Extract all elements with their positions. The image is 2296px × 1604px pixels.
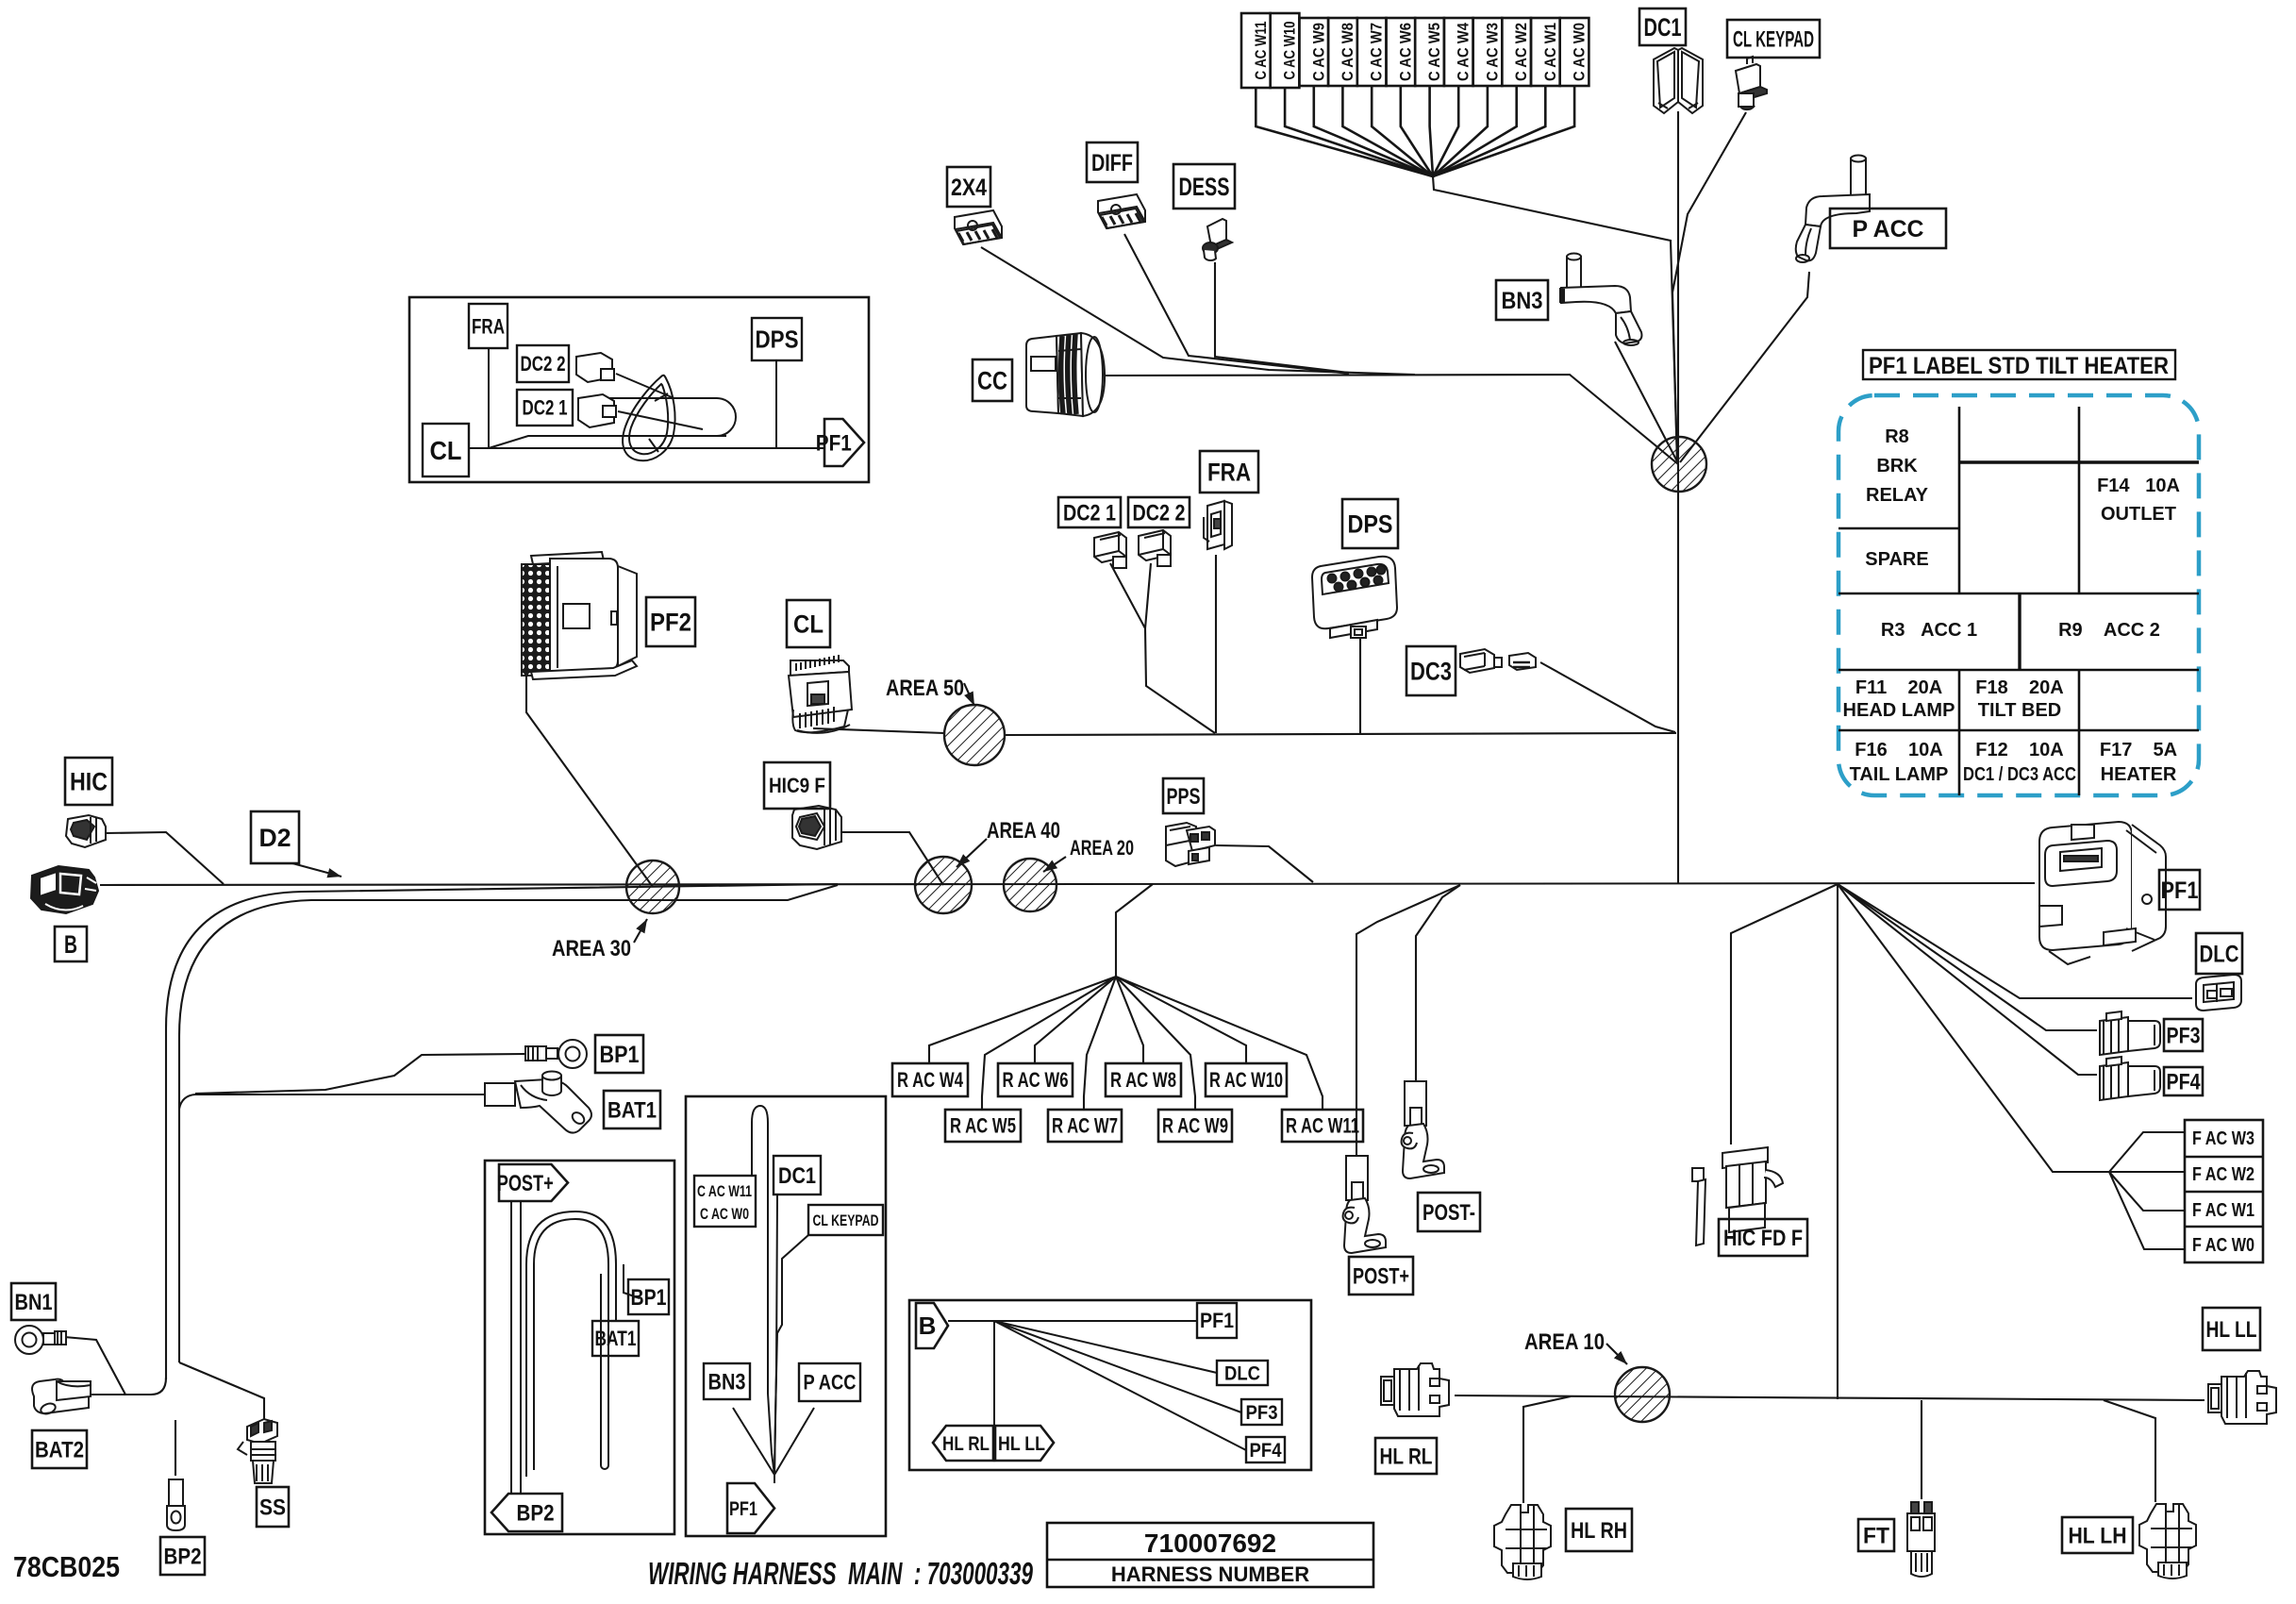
wire PF2 drop: [526, 677, 653, 887]
wire accessory trunk area50: [813, 728, 1676, 735]
connector DC2 2 mid: [1139, 530, 1171, 566]
svg-text:C AC W0: C AC W0: [700, 1205, 749, 1223]
wire CL KEYPAD drop mid: [774, 1235, 808, 1475]
wire C AC W4 fan line: [1433, 86, 1458, 176]
svg-text:F12 10A: F12 10A: [1975, 740, 2063, 760]
wire HIC FD F drop: [1731, 884, 1838, 1145]
label R AC W4: [892, 1063, 968, 1096]
svg-text:B: B: [64, 930, 77, 959]
svg-text:F16 10A: F16 10A: [1855, 740, 1942, 760]
wire battery cable outer: [166, 884, 838, 1379]
wire P ACC drop: [1680, 272, 1809, 462]
label C AC W2 top: [1502, 18, 1531, 86]
connector SS: [238, 1419, 277, 1483]
svg-text:HL LL: HL LL: [2206, 1317, 2257, 1343]
svg-text:BP2: BP2: [164, 1544, 202, 1569]
wire SS link: [179, 1362, 264, 1420]
svg-text:DPS: DPS: [1348, 510, 1393, 538]
label PF4: [2164, 1067, 2203, 1095]
svg-text:C AC W4: C AC W4: [1455, 23, 1472, 81]
svg-text:HARNESS NUMBER: HARNESS NUMBER: [1111, 1562, 1309, 1586]
svg-text:B: B: [919, 1312, 937, 1340]
label BAT1: [604, 1091, 660, 1128]
svg-text:F AC W3: F AC W3: [2192, 1128, 2254, 1149]
label CL KEYPAD inset: [808, 1205, 883, 1235]
svg-text:F AC W1: F AC W1: [2192, 1200, 2254, 1221]
label PF3 b-inset: [1241, 1399, 1282, 1425]
wire DESS drop: [1215, 262, 1349, 373]
connector CL KEYPAD: [1736, 57, 1767, 109]
label HL LL: [2203, 1308, 2260, 1350]
label PF1 flag inset: [816, 419, 864, 466]
connector DPS: [1312, 557, 1397, 638]
label C AC W5 top: [1415, 18, 1444, 86]
svg-text:OUTLET: OUTLET: [2101, 504, 2176, 525]
svg-text:FRA: FRA: [472, 315, 505, 339]
wire lower trunk: [1455, 1395, 2204, 1400]
wire R AC fan stem: [1116, 884, 1153, 977]
label C AC W3 top: [1473, 18, 1503, 86]
wire C AC W0 fan line: [1433, 86, 1574, 176]
wire PPS link: [1216, 845, 1313, 882]
relay DIFF: [1098, 194, 1145, 228]
svg-text:2X4: 2X4: [951, 175, 987, 201]
svg-text:DC2 1: DC2 1: [1063, 500, 1116, 526]
label DC2 2 mid: [1128, 497, 1190, 527]
label POST plus: [1349, 1257, 1413, 1295]
connector DC3: [1460, 649, 1536, 673]
label HL LH: [2062, 1517, 2133, 1553]
wire C AC W3 fan line: [1433, 86, 1488, 176]
wire HIC link: [106, 832, 224, 884]
fuse panel grid: [1838, 407, 2199, 795]
svg-text:PF3: PF3: [2167, 1023, 2201, 1048]
svg-text:HL RH: HL RH: [1571, 1518, 1627, 1544]
connector HL RL: [1381, 1363, 1449, 1416]
wire BP1 link: [195, 1054, 525, 1094]
svg-text:FRA: FRA: [1207, 458, 1251, 486]
label DC2 1 inset: [517, 390, 573, 426]
connector FRA mid: [1204, 501, 1232, 549]
svg-text:D2: D2: [259, 824, 291, 852]
wire C AC W11 fan line: [1256, 88, 1433, 176]
svg-text:C AC W0: C AC W0: [1571, 23, 1589, 81]
wire F AC link: [1838, 884, 2109, 1172]
connector PF3: [2100, 1011, 2160, 1055]
svg-text:HEAD LAMP: HEAD LAMP: [1843, 700, 1955, 721]
label FRA mid: [1200, 451, 1258, 493]
svg-text:PF1 LABEL STD TILT HEATER: PF1 LABEL STD TILT HEATER: [1869, 353, 2169, 379]
wire HIC9F link: [841, 832, 943, 885]
terminal BN1 ring: [15, 1326, 66, 1354]
svg-text:CC: CC: [977, 366, 1007, 394]
node AREA 30: [626, 860, 679, 913]
connector HL LH: [2139, 1504, 2196, 1579]
connector CL: [789, 655, 852, 733]
node AREA 10: [1615, 1367, 1670, 1422]
svg-text:RELAY: RELAY: [1866, 485, 1929, 506]
label P ACC inset: [799, 1363, 860, 1401]
connector HIC FD F: [1692, 1147, 1783, 1245]
svg-text:SS: SS: [259, 1495, 286, 1520]
label R AC W8: [1106, 1063, 1181, 1096]
svg-text:HEATER: HEATER: [2101, 764, 2177, 785]
wire BAT2 link: [92, 1378, 166, 1395]
svg-text:PF1: PF1: [729, 1498, 757, 1520]
AREA JUNCTION CIRCLES: [626, 437, 1706, 1422]
terminal BP1 ring: [525, 1040, 587, 1068]
wire D2 pointer: [292, 863, 341, 877]
connector BN3: [1561, 254, 1641, 346]
label HL LL flag: [995, 1426, 1054, 1461]
connector DC2 1 inset: [578, 394, 703, 429]
wire BN3 drop mid: [733, 1408, 774, 1475]
svg-text:CL KEYPAD: CL KEYPAD: [1733, 26, 1814, 52]
label C AC W8 top: [1328, 18, 1357, 86]
fuse panel title box: [1863, 350, 2175, 379]
label FT: [1858, 1519, 1894, 1551]
wire R AC fan lines: [929, 977, 1323, 1110]
wire AREA20 pointer: [1043, 857, 1066, 872]
label DLC b-inset: [1217, 1361, 1268, 1385]
svg-text:PF1: PF1: [2161, 877, 2199, 904]
wire DIFF drop: [1124, 234, 1349, 374]
terminal BAT1: [485, 1072, 591, 1133]
label C AC W4 top: [1444, 18, 1473, 86]
wire POST minus drop: [1416, 885, 1460, 1081]
label BP2 flag: [491, 1494, 562, 1531]
svg-text:HL RL: HL RL: [942, 1433, 990, 1455]
svg-text:C AC W8: C AC W8: [1339, 23, 1356, 81]
connector DC1: [1654, 48, 1703, 113]
label PF1 flag mid: [727, 1483, 774, 1533]
connector DC2 2 inset: [576, 353, 672, 397]
label BN3 inset: [704, 1363, 750, 1399]
svg-text:CL: CL: [793, 610, 824, 638]
label R AC W9: [1158, 1110, 1232, 1142]
wire C AC W9 fan line: [1314, 86, 1433, 176]
svg-text:POST+: POST+: [497, 1171, 554, 1196]
label PF2: [646, 597, 695, 646]
label BP1: [595, 1035, 643, 1073]
label BP2: [160, 1537, 205, 1575]
svg-text:AREA 50: AREA 50: [886, 676, 964, 701]
svg-text:DC3: DC3: [1410, 657, 1452, 685]
svg-text:WIRING HARNESS MAIN : 703000: WIRING HARNESS MAIN : 703000339: [648, 1556, 1033, 1591]
svg-text:DC2 2: DC2 2: [521, 352, 566, 376]
svg-text:DC1: DC1: [778, 1163, 816, 1189]
svg-text:R AC W5: R AC W5: [950, 1114, 1016, 1138]
svg-text:TAIL LAMP: TAIL LAMP: [1850, 764, 1949, 785]
inset detail box POST+ BP2: [485, 1161, 674, 1534]
wire main trunk: [100, 883, 2035, 885]
connector DLC: [2196, 975, 2241, 1011]
svg-text:AREA 20: AREA 20: [1070, 836, 1134, 860]
wire PF4 link: [1838, 884, 2097, 1075]
wire DC1 drop mid: [774, 1195, 777, 1475]
label PF1 right: [2159, 870, 2200, 910]
wire AREA50 pointer: [964, 683, 974, 706]
label HIC: [65, 758, 112, 805]
svg-text:DPS: DPS: [756, 326, 799, 354]
wire P ACC drop mid: [774, 1408, 814, 1483]
wire C AC W8 fan line: [1342, 86, 1433, 176]
label C AC W11 top: [1241, 13, 1271, 88]
connector HL RH: [1494, 1505, 1551, 1579]
label HIC FD F: [1719, 1219, 1807, 1256]
svg-text:F14 10A: F14 10A: [2097, 476, 2180, 496]
wire BAT1 link: [179, 1094, 485, 1109]
label HL RH: [1566, 1509, 1632, 1551]
label PPS: [1163, 778, 1204, 813]
label C AC W10 top: [1271, 13, 1300, 88]
wire AREA10 pointer: [1606, 1344, 1627, 1364]
svg-text:DC1: DC1: [1644, 13, 1682, 42]
svg-text:HIC FD F: HIC FD F: [1723, 1226, 1803, 1251]
svg-text:DIFF: DIFF: [1091, 150, 1133, 176]
svg-text:R8: R8: [1885, 426, 1909, 447]
wire C AC W2 fan line: [1433, 86, 1517, 176]
svg-text:FT: FT: [1863, 1523, 1889, 1548]
wire POST plus drop: [1356, 885, 1460, 1171]
label P ACC: [1830, 209, 1946, 248]
wire AREA30 pointer: [634, 919, 647, 943]
wire CC bundle: [1105, 375, 1678, 464]
svg-text:DC1 / DC3 ACC: DC1 / DC3 ACC: [1963, 764, 2076, 785]
label PF1 b-inset: [1197, 1303, 1237, 1338]
label HL RL: [1375, 1438, 1437, 1474]
wire inset CL to PF1: [469, 348, 824, 448]
label R AC W5: [945, 1110, 1021, 1142]
label C AC W6 top: [1387, 18, 1416, 86]
svg-text:C AC W10: C AC W10: [1281, 22, 1299, 80]
connector HL LL: [2208, 1371, 2276, 1424]
label F AC W3-W0 stack: [2185, 1120, 2263, 1262]
svg-text:CL: CL: [430, 436, 462, 465]
label DESS: [1173, 164, 1235, 209]
svg-text:BRK: BRK: [1876, 456, 1918, 476]
capsule loop inset: [594, 398, 736, 436]
svg-text:R AC W11: R AC W11: [1286, 1114, 1359, 1138]
wire hairpin loop mid: [752, 1106, 774, 1475]
label DPS inset: [752, 318, 802, 360]
svg-text:PF3: PF3: [1246, 1402, 1278, 1424]
label B: [55, 927, 87, 961]
connector PF4: [2100, 1057, 2160, 1100]
svg-text:C AC W9: C AC W9: [1309, 23, 1327, 81]
svg-text:C AC W7: C AC W7: [1368, 23, 1386, 81]
svg-text:F18 20A: F18 20A: [1975, 677, 2063, 698]
svg-text:F AC W2: F AC W2: [2192, 1164, 2254, 1185]
label DLC: [2196, 933, 2242, 974]
svg-text:POST-: POST-: [1423, 1200, 1475, 1226]
terminal POST minus: [1402, 1081, 1444, 1178]
wire battery cable inner: [179, 885, 838, 1362]
terminal BP2: [167, 1479, 185, 1530]
connector PF1: [2039, 822, 2166, 964]
wire DC3 link: [1540, 662, 1675, 732]
fuse panel dashed border: [1838, 395, 2199, 795]
svg-text:DLC: DLC: [2200, 941, 2239, 967]
label BAT2: [32, 1430, 87, 1468]
svg-text:R AC W4: R AC W4: [897, 1068, 964, 1092]
svg-text:R9 ACC 2: R9 ACC 2: [2058, 620, 2160, 641]
connector B: [31, 866, 98, 913]
label B flag: [916, 1303, 948, 1348]
svg-text:HL LH: HL LH: [2069, 1523, 2127, 1548]
svg-text:BN3: BN3: [1502, 288, 1543, 314]
wire BN3 drop: [1615, 342, 1678, 463]
label CL KEYPAD: [1727, 20, 1820, 58]
svg-text:BP1: BP1: [600, 1042, 640, 1068]
wire junction spine DC1 to trunk: [1677, 111, 1679, 883]
inset detail box B headlamps: [909, 1300, 1311, 1470]
node AREA 20: [1004, 859, 1056, 911]
inset detail box CL-FRA-DPS-PF1: [409, 297, 869, 482]
svg-text:DESS: DESS: [1179, 173, 1230, 201]
wire B to PF1: [948, 1321, 1246, 1461]
svg-text:C AC W2: C AC W2: [1512, 23, 1530, 81]
svg-text:C AC W5: C AC W5: [1425, 23, 1443, 81]
label CL: [787, 600, 830, 647]
connector P ACC: [1796, 156, 1870, 263]
svg-text:BN1: BN1: [15, 1290, 53, 1315]
connector PPS: [1166, 823, 1215, 866]
wire C AC fan stem: [1433, 176, 1677, 462]
wire CL KEYPAD drop: [1672, 112, 1746, 461]
svg-text:BAT1: BAT1: [607, 1097, 657, 1123]
label D2: [251, 811, 299, 863]
label DC2 2 inset: [517, 345, 569, 382]
svg-text:DC2 1: DC2 1: [523, 396, 568, 420]
svg-text:R3 ACC 1: R3 ACC 1: [1881, 620, 1977, 641]
wire C AC W7 fan line: [1372, 86, 1433, 176]
svg-text:PF4: PF4: [1250, 1440, 1282, 1462]
wire DC2 pair V: [1110, 563, 1215, 733]
node junction circle DC1: [1652, 437, 1706, 492]
label BN3: [1496, 280, 1548, 320]
svg-text:BAT2: BAT2: [35, 1437, 84, 1462]
relay 2X4: [955, 210, 1002, 244]
label R AC W10: [1206, 1063, 1287, 1096]
label R AC W7: [1048, 1110, 1122, 1142]
wire C AC W5 fan line: [1430, 86, 1433, 176]
label C AC W7 top: [1357, 18, 1387, 86]
label DC2 1 mid: [1058, 497, 1121, 527]
connector HIC9 F: [792, 806, 841, 849]
label R AC W6: [998, 1063, 1073, 1096]
label 2X4: [947, 167, 990, 207]
wire 2X4 drop: [981, 247, 1415, 375]
wire F AC branches: [2109, 1132, 2185, 1249]
svg-text:F17 5A: F17 5A: [2100, 740, 2177, 760]
label BAT1 inset: [592, 1321, 639, 1356]
wire BP2 link: [175, 1420, 176, 1476]
label PF4 b-inset: [1246, 1437, 1285, 1462]
svg-text:710007692: 710007692: [1144, 1529, 1276, 1558]
fuse panel text: [1843, 426, 2180, 785]
label DIFF: [1087, 142, 1138, 182]
svg-text:R AC W6: R AC W6: [1003, 1068, 1069, 1092]
wire BN1 link: [64, 1337, 125, 1395]
inset detail box DC1 PF1: [686, 1096, 886, 1536]
wire HL RH drop: [1523, 1396, 1571, 1503]
svg-text:R AC W10: R AC W10: [1209, 1068, 1283, 1092]
svg-text:SPARE: SPARE: [1865, 549, 1928, 570]
wire C AC W1 fan line: [1433, 86, 1545, 176]
terminal BAT2: [32, 1379, 91, 1416]
svg-text:C AC W11: C AC W11: [697, 1182, 752, 1200]
svg-text:POST+: POST+: [1353, 1263, 1409, 1289]
svg-text:CL KEYPAD: CL KEYPAD: [813, 1211, 879, 1229]
label BN1: [11, 1283, 56, 1320]
svg-text:AREA 30: AREA 30: [552, 936, 631, 961]
wire C AC W6 fan line: [1401, 86, 1433, 176]
terminal POST plus: [1343, 1156, 1386, 1253]
node AREA 50: [944, 705, 1005, 765]
label FRA inset: [469, 304, 507, 348]
svg-text:HIC9 F: HIC9 F: [769, 774, 825, 797]
svg-text:R AC W8: R AC W8: [1110, 1068, 1176, 1092]
svg-text:TILT BED: TILT BED: [1978, 700, 2062, 721]
svg-text:C AC W11: C AC W11: [1252, 22, 1270, 80]
svg-text:HIC: HIC: [70, 767, 108, 795]
svg-text:PF2: PF2: [650, 608, 691, 636]
svg-text:R AC W9: R AC W9: [1162, 1114, 1228, 1138]
connector FT: [1907, 1502, 1935, 1577]
svg-text:P ACC: P ACC: [804, 1371, 857, 1395]
svg-text:C AC W6: C AC W6: [1396, 23, 1414, 81]
label DPS mid: [1342, 499, 1398, 548]
svg-text:PPS: PPS: [1167, 784, 1201, 810]
wire C AC W10 fan line: [1285, 88, 1433, 176]
label BP1 inset: [628, 1279, 669, 1314]
svg-text:78CB025: 78CB025: [13, 1550, 120, 1583]
svg-text:F11 20A: F11 20A: [1855, 677, 1942, 698]
wire HL LH drop: [2104, 1400, 2155, 1502]
label PF3: [2164, 1019, 2203, 1051]
harness number table: [1047, 1523, 1373, 1587]
label C AC W9 top: [1299, 18, 1328, 86]
label DC3: [1406, 646, 1456, 695]
label POST minus: [1418, 1193, 1480, 1231]
wire POST+ pair: [511, 1201, 521, 1494]
connector CC: [1026, 333, 1105, 416]
svg-text:DC2 2: DC2 2: [1133, 500, 1186, 526]
label CL inset: [423, 424, 469, 476]
wire FT drop: [1921, 1400, 1922, 1499]
svg-text:R AC W7: R AC W7: [1052, 1114, 1118, 1138]
svg-text:P ACC: P ACC: [1853, 216, 1924, 242]
wire BP1 BAT1 U loop: [526, 1211, 640, 1477]
label DC1 inset: [774, 1156, 821, 1195]
wire AREA40 pointer: [957, 839, 987, 867]
label HIC9 F: [764, 762, 830, 809]
connector HIC: [66, 815, 106, 847]
wire DLC link: [1838, 884, 2192, 998]
svg-text:HL RL: HL RL: [1380, 1444, 1433, 1469]
label POST+ flag: [497, 1164, 568, 1201]
svg-text:PF4: PF4: [2167, 1069, 2202, 1094]
carabiner clip inset: [623, 376, 674, 461]
svg-text:PF1: PF1: [816, 430, 852, 456]
svg-text:C AC W1: C AC W1: [1541, 23, 1559, 81]
wire spine trunk to lower trunk: [1837, 884, 1838, 1399]
svg-text:DLC: DLC: [1224, 1362, 1260, 1384]
wire PF3 link: [1838, 884, 2097, 1030]
svg-text:AREA 40: AREA 40: [987, 818, 1060, 844]
svg-text:HL LL: HL LL: [998, 1433, 1045, 1455]
